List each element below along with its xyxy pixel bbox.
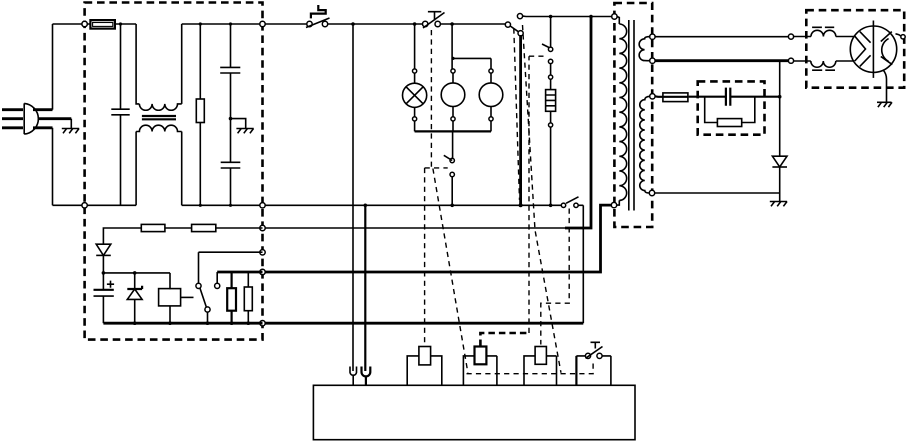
door interlock switch SA1 bbox=[306, 5, 330, 28]
resistor R4 bbox=[227, 272, 236, 323]
chassis ground tap bbox=[229, 117, 254, 134]
node row in control box bbox=[103, 272, 170, 274]
capacitor C3 (lower Y-cap) bbox=[221, 162, 241, 205]
electrolytic capacitor C4 bbox=[94, 273, 115, 323]
HV winding return bbox=[655, 192, 780, 194]
HV winding bbox=[640, 94, 655, 196]
filament choke L3 bbox=[794, 61, 855, 70]
lamp feed junction bbox=[413, 22, 417, 26]
wire top rail left bbox=[53, 23, 137, 25]
resistor R5 bbox=[244, 272, 252, 323]
wire plug-bottom to bottom rail bbox=[52, 128, 54, 206]
thick node4 row bbox=[217, 271, 262, 274]
link diagonal SPDT to bar bbox=[523, 25, 562, 373]
zener diode VD2 bbox=[127, 273, 142, 323]
monitor switch SA2 (vertical) bbox=[444, 131, 455, 207]
turntable motor M2 bbox=[451, 57, 502, 132]
heater bottom switch SA5 bbox=[561, 197, 583, 208]
wire1 to board connector bbox=[352, 24, 354, 371]
capacitor C1 bbox=[111, 22, 129, 205]
HV capacitor dashed box bbox=[698, 81, 765, 134]
node terminals on control box edge bbox=[82, 21, 87, 26]
rectifier diode VD1 bbox=[96, 244, 111, 273]
HV wire to diode bbox=[689, 96, 780, 98]
link: heater switch SA4 down leg bbox=[529, 56, 544, 333]
relay RL3 on board bbox=[524, 347, 557, 386]
control supply resistor R2 bbox=[192, 224, 263, 231]
start switch SB on board bbox=[576, 342, 611, 385]
junction heater branch bbox=[549, 15, 553, 19]
junction motors feed bbox=[450, 22, 454, 26]
line filter / control dashed enclosure bbox=[85, 3, 263, 340]
link: SPDT blade short bbox=[514, 29, 520, 201]
filament winding bbox=[639, 34, 655, 63]
link: thermostat to monitor switch bbox=[430, 30, 432, 168]
link diagonal to bar (from monitor area) bbox=[433, 169, 468, 373]
wire top rail B bbox=[182, 23, 506, 25]
resistor R1 bbox=[196, 22, 204, 205]
capacitor C2 (upper Y-cap) bbox=[220, 22, 240, 162]
wire plug-top to rail bbox=[52, 24, 54, 110]
thick feed wire x591 and row2 bbox=[565, 17, 591, 229]
link bar above board bbox=[467, 360, 594, 374]
control supply resistor R3 bbox=[103, 224, 191, 244]
transformer core bbox=[629, 20, 634, 211]
filament wires to magnetron bbox=[655, 36, 788, 38]
filament choke L2 bbox=[794, 27, 855, 36]
HV capacitor C5 bbox=[726, 88, 730, 106]
heater return wire to row4 bbox=[582, 205, 584, 323]
protective earth at plug bbox=[62, 119, 79, 134]
junction node wire1 bbox=[351, 22, 355, 26]
thermostat switch ST with T symbol bbox=[423, 12, 445, 28]
wire1 connector cup bbox=[350, 367, 357, 386]
relay RL2 on board bbox=[463, 347, 497, 386]
magnetron dashed box bbox=[806, 10, 904, 88]
relay RL1 on board bbox=[407, 347, 442, 386]
transformer T primary winding bbox=[611, 14, 626, 208]
relay K1 coil bbox=[159, 273, 194, 323]
junction thick feed bbox=[589, 15, 593, 19]
bottom rail row1 bbox=[53, 204, 562, 206]
chassis ground at HV diode bbox=[770, 193, 787, 206]
wire2 connector cup bbox=[362, 367, 371, 386]
fan motor M1 bbox=[441, 24, 465, 131]
link: heater bottom switch to relay RL3 bbox=[541, 209, 569, 345]
grill heater branch: switch SA4 bbox=[542, 17, 553, 76]
lamp/motor common bus bbox=[415, 130, 491, 132]
power select relay switch SA3 (SPDT) bbox=[505, 14, 523, 36]
wire SPDT upper throw to transformer primary bbox=[523, 15, 612, 17]
wire node3 to switch bbox=[199, 251, 263, 253]
relay contact switch SK1 bbox=[196, 252, 220, 323]
cavity lamp EL bbox=[403, 24, 427, 131]
AC plug XP1 bbox=[2, 103, 71, 134]
control board bbox=[313, 385, 635, 439]
wire2 junction on row1 bbox=[364, 204, 368, 208]
HV transformer dashed box bbox=[614, 3, 652, 227]
row4 thick bbox=[263, 322, 584, 325]
chassis ground at magnetron bbox=[877, 70, 892, 107]
fuse FU1 bbox=[90, 20, 115, 29]
link: monitor switch lateral bbox=[425, 167, 448, 169]
link: relay RL2 thick dashed elbow bbox=[480, 333, 529, 346]
row3 thick and primary bottom return bbox=[263, 205, 612, 272]
thick wire SPDT lower throw down to row1 bbox=[519, 36, 522, 206]
HV diode VD3 bbox=[772, 61, 787, 193]
magnetron M bbox=[850, 21, 905, 78]
HV fuse FU2 bbox=[655, 93, 688, 102]
bleeder resistor R6 bbox=[705, 97, 755, 127]
link: to relay RL1 bbox=[424, 168, 426, 342]
wire2 to board connector bbox=[364, 205, 366, 371]
grill heating element EK bbox=[546, 75, 556, 207]
common-mode choke L1 bbox=[136, 24, 182, 205]
control box bottom bus bbox=[103, 322, 262, 325]
